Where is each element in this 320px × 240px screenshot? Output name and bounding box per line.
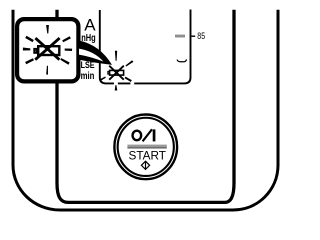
ray N <box>46 25 49 34</box>
gray divider bar <box>127 145 166 148</box>
battery nub (left) <box>34 49 36 53</box>
ray SE <box>125 77 132 82</box>
callout battery icon <box>34 38 59 60</box>
svg-text:85: 85 <box>197 31 205 41</box>
display window <box>100 10 191 84</box>
svg-text:A: A <box>84 16 96 35</box>
white gap in display line for S ray <box>114 82 118 85</box>
white gap in display line for SE ray <box>130 82 134 86</box>
ray SE <box>60 58 69 65</box>
O of O/I <box>133 131 142 141</box>
small arc mark in display <box>177 60 186 62</box>
START button inner ring <box>118 118 174 176</box>
ray SW <box>99 77 106 82</box>
callout tail inner (white) <box>79 49 104 62</box>
scale tick <box>192 35 196 37</box>
battery body <box>38 46 59 55</box>
battery nub (left) <box>108 71 109 74</box>
X cross <box>35 38 59 60</box>
device inner bezel line <box>57 10 234 203</box>
power diamond symbol <box>141 161 149 169</box>
callout box <box>17 19 78 81</box>
ray N <box>115 51 117 61</box>
ray NE <box>62 36 71 42</box>
ray S <box>46 66 48 75</box>
svg-text:START: START <box>129 148 167 162</box>
I of O/I <box>153 129 156 141</box>
START button outer ring <box>114 115 177 180</box>
ray SW <box>25 58 34 64</box>
ray E <box>65 49 72 52</box>
ray S <box>115 85 118 90</box>
ray W <box>23 48 30 51</box>
device outer body outline <box>13 10 278 210</box>
ray NW <box>25 36 34 42</box>
ray NE <box>125 60 133 66</box>
svg-text:min: min <box>81 71 95 82</box>
battery body <box>110 70 124 75</box>
small blinking battery icon in display <box>108 66 124 80</box>
callout tail outer (black) <box>79 41 112 65</box>
gray segment dash in display <box>175 35 185 38</box>
X cross <box>109 66 124 80</box>
slash of O/I <box>143 129 152 141</box>
